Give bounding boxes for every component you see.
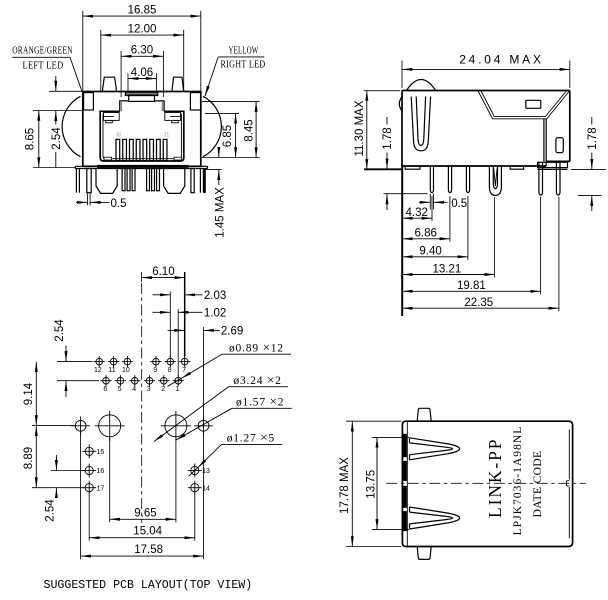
bottom mounting tab [417,547,431,560]
svg-text:1.02: 1.02 [204,308,226,320]
pad hole 10 [122,356,133,367]
svg-text:ø1.57 ×2: ø1.57 ×2 [236,394,284,409]
svg-text:LPJK7036-1A98NL: LPJK7036-1A98NL [512,426,524,536]
svg-text:0.5: 0.5 [451,198,467,210]
hole 16 [82,464,96,478]
left 0.5 thickness leg [87,169,91,193]
pad hole 1 [173,375,184,386]
svg-text:2: 2 [161,386,165,393]
shield pin 5 [556,169,560,195]
dimension 1.78 right [571,117,606,211]
callout dia 0.89 x12 [168,340,292,387]
dimension 2.69 [168,326,244,420]
svg-text:9: 9 [153,367,157,374]
svg-text:ø0.89 ×12: ø0.89 ×12 [229,340,284,355]
svg-text:11: 11 [108,367,115,374]
U retention spring [411,97,430,151]
svg-text:4.06: 4.06 [131,67,153,79]
dimension 2.54 bottom-left [32,455,85,522]
left thin shield leg pair [76,169,79,193]
svg-text:2.54: 2.54 [45,499,57,522]
hole 14 [188,481,202,495]
seating plane thick extension [364,168,403,170]
right top panel tab [172,77,184,91]
dimension 0.5 front [76,194,127,210]
svg-text:J1: J1 [164,133,170,139]
right step block [538,162,568,169]
pad number labels row 2 [103,386,179,393]
dimension 22.35 [402,197,559,312]
front face double line [544,119,546,166]
dimension 6.10 [142,266,185,356]
svg-text:9.40: 9.40 [419,246,441,258]
pad hole 12 [94,356,105,367]
svg-text:J8: J8 [116,133,122,139]
svg-text:1: 1 [176,386,180,393]
svg-text:LINK-PP: LINK-PP [485,438,505,518]
left edge EMI bump [399,97,402,111]
dimension 6.85 [205,113,239,157]
svg-text:19.81: 19.81 [457,280,486,292]
svg-text:8.89: 8.89 [23,447,35,469]
front view legs [76,169,203,194]
dimension 17.78 MAX [339,421,402,546]
dimension 1.78 left [382,117,428,210]
front bezel inner line [567,430,570,539]
8 contact fingers [116,139,167,160]
svg-text:2.54: 2.54 [54,319,66,342]
callout dia 1.57 x2 [176,394,292,441]
chamfer recess (double lines) [478,91,570,119]
lower V spring [410,507,460,529]
pin 1 [430,166,433,193]
side view body outline [402,91,570,167]
dimension 0.5 side [419,194,467,211]
dimension 19.81 [402,197,540,295]
svg-text:17: 17 [97,485,105,492]
hole 15 [82,444,96,458]
dimension 8.89 [23,426,37,488]
svg-text:10: 10 [122,367,130,374]
svg-text:8.45: 8.45 [244,119,256,141]
dimension 2.54 top-left [54,319,99,397]
dimension 16.85 [83,4,201,90]
svg-text:6.85: 6.85 [222,125,234,147]
left LED window [84,93,94,110]
port right corner block [165,113,181,123]
svg-text:6: 6 [103,386,107,393]
svg-text:11.30 MAX: 11.30 MAX [354,100,366,156]
svg-text:7: 7 [182,367,186,374]
dark shelf bar [97,165,189,168]
svg-text:4.32: 4.32 [406,207,428,219]
dimension 17.58 [81,432,204,559]
top view body [402,421,572,546]
svg-text:1.78: 1.78 [382,127,394,149]
right thin leg [191,169,194,193]
pad hole 7 [179,356,190,367]
dimension 9.14 [23,362,74,426]
pad hole 8 [165,356,176,367]
svg-text:12.00: 12.00 [128,23,157,35]
left contact pin cluster [122,169,125,191]
svg-text:LEFT LED: LEFT LED [23,60,64,71]
mounting hole 1.57 left [71,416,90,435]
dimension 2.03 [153,290,227,357]
svg-text:16.85: 16.85 [128,4,157,16]
right standoff foot [510,166,523,169]
bold baseline extension [401,166,403,316]
mounting hole 3.24 left [95,411,125,441]
svg-text:DATE CODE: DATE CODE [532,451,544,518]
left big plastic post [96,169,117,194]
dimension 8.65 [25,111,83,168]
svg-text:9.65: 9.65 [134,507,156,519]
mounting hole 1.57 right [194,416,213,435]
mounting hole 3.24 right [161,411,191,441]
dimension 9.40 [402,196,468,260]
label ORANGE/GREEN LEFT LED [12,45,82,91]
pad hole 11 [108,356,119,367]
dimension 12.00 [101,23,184,90]
svg-text:8.65: 8.65 [25,128,37,150]
svg-text:1.45 MAX: 1.45 MAX [214,187,226,238]
svg-text:16: 16 [97,468,105,475]
svg-text:2.69: 2.69 [221,326,243,338]
dimension 9.65 [110,438,176,523]
latch throat [120,101,164,111]
dimension 15.04 [89,495,195,541]
right LED window [190,93,200,110]
front view shell body [83,92,201,167]
dimension 13.75 [365,437,409,529]
svg-text:8: 8 [168,367,172,374]
dimension 4.06 [128,67,156,91]
right EMI finger arc [203,96,221,156]
top mounting tab [417,408,431,421]
label YELLOW RIGHT LED [205,45,266,96]
pin 2 [448,166,451,193]
dimension 24.04 MAX [402,52,570,88]
pad hole 9 [150,356,161,367]
svg-text:2.54: 2.54 [51,127,63,150]
pad hole 3 [144,375,155,386]
svg-text:12: 12 [94,367,102,374]
rear face inner line [406,421,408,546]
dimension 2.54 left [49,76,82,168]
pad hole 4 [129,375,140,386]
svg-text:15: 15 [97,449,105,456]
callout dia 1.27 x5 [189,430,283,477]
left standoff foot [405,166,420,169]
svg-text:RIGHT LED: RIGHT LED [221,59,266,70]
svg-text:YELLOW: YELLOW [229,45,259,56]
right contact pin cluster [147,169,150,191]
pad hole 6 [100,375,111,386]
hole 13 [188,464,202,478]
svg-text:ø1.27 ×5: ø1.27 ×5 [227,430,275,445]
hole 17 [82,481,96,495]
right big plastic post [164,169,185,194]
port inner wall lines [103,114,181,159]
left foot tab [104,157,112,160]
rear edge dark segments [403,434,407,531]
shield pin 4 [539,169,543,195]
port opening outline [100,111,184,161]
svg-text:5: 5 [118,386,122,393]
upper shield hole [526,100,541,108]
svg-text:1.78: 1.78 [587,127,599,149]
dimension 8.45 [202,102,260,158]
svg-text:2.03: 2.03 [204,290,226,302]
callout dia 3.24 x2 [154,372,288,442]
svg-text:3: 3 [147,386,151,393]
dimension 11.30 MAX [354,91,400,170]
left top panel tab [102,77,116,91]
svg-text:ø3.24 ×2: ø3.24 ×2 [233,372,281,387]
hole labels 15 16 17 13 14 [97,449,210,492]
svg-text:0.5: 0.5 [111,198,127,210]
svg-text:ORANGE/GREEN: ORANGE/GREEN [12,45,73,56]
svg-text:4: 4 [132,386,136,393]
top EMI finger dome [407,80,436,91]
svg-text:9.14: 9.14 [23,382,35,405]
svg-text:6.86: 6.86 [415,228,437,240]
right foot tab [174,157,182,160]
port left corner block [104,113,120,123]
svg-text:17.78 MAX: 17.78 MAX [339,457,351,514]
shelf plate [75,166,207,168]
svg-text:22.35: 22.35 [464,297,493,309]
latch bar [125,92,157,102]
pad hole 2 [158,375,169,386]
dimension 6.86 [402,196,450,242]
upper V spring [410,438,460,460]
lower latch hole [556,138,563,153]
svg-text:15.04: 15.04 [133,526,162,538]
dimension 1.45 MAX [205,147,227,238]
svg-text:6.10: 6.10 [152,266,174,278]
svg-text:17.58: 17.58 [134,544,163,556]
pad number labels row 1 [94,367,186,374]
dimension 1.02 [153,308,227,376]
svg-text:13.21: 13.21 [433,263,462,275]
right shield leg pair [200,169,203,193]
right dark shield leg [203,169,205,194]
pin 3 [466,166,469,193]
left EMI finger arc [62,96,80,156]
vertical centerline [141,283,143,523]
svg-text:24.04 MAX: 24.04 MAX [459,52,544,66]
svg-text:SUGGESTED PCB LAYOUT(TOP VIEW): SUGGESTED PCB LAYOUT(TOP VIEW) [44,579,253,592]
dimension 4.32 [402,196,432,221]
dimension 13.21 [402,197,494,278]
svg-text:6.30: 6.30 [131,45,153,57]
center snap post [489,166,501,195]
dimension 6.30 [121,45,163,97]
pad hole 5 [115,375,126,386]
svg-text:13.75: 13.75 [365,470,377,499]
horizontal centerline [386,482,585,484]
